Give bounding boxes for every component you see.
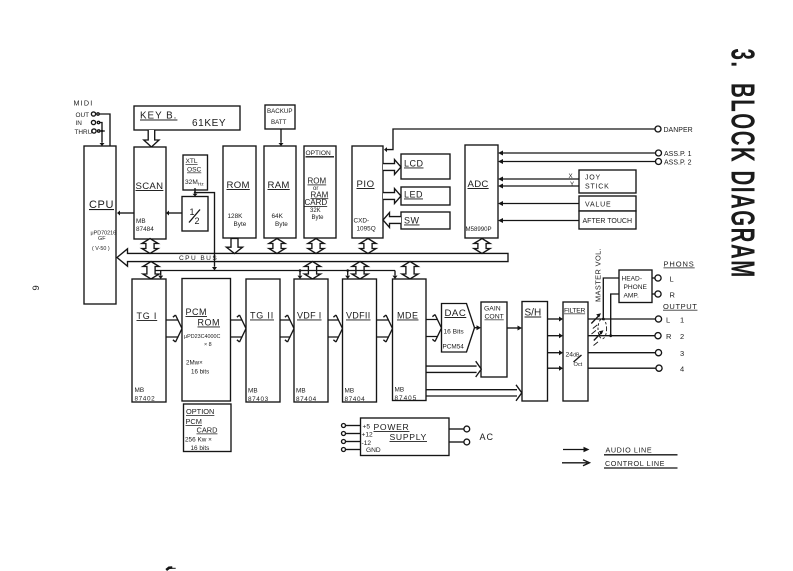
OPTION PCM CARD 256Kw x 16bits [184,404,232,452]
svg-text:AFTER TOUCH: AFTER TOUCH [583,218,633,225]
connector chevron into VDF I [285,315,294,342]
bus arrow VDF II (bidirectional) [352,262,368,280]
wire S/H to FILTER ch3 [548,350,564,355]
svg-text:CONT: CONT [485,314,504,321]
svg-text:SUPPLY: SUPPLY [390,432,427,442]
wire amp to PHONS L terminal [652,274,674,283]
MIDI THRU jack [75,129,100,136]
wires VDF I to VDF II [328,320,339,337]
svg-text:RAM: RAM [268,180,290,191]
svg-text:R: R [670,290,676,299]
svg-text:64K: 64K [272,213,284,220]
master volume pot on L line [591,313,601,334]
svg-text:PCM: PCM [186,307,208,317]
power input GND terminal [342,448,361,452]
power input +12 terminal [342,432,361,436]
svg-text:MB: MB [345,388,355,395]
legend audio line arrow [563,447,590,452]
svg-text:ADC: ADC [468,179,489,190]
TG I MB87402 [132,279,166,403]
svg-text:Byte: Byte [234,221,247,228]
wire VALUE to ADC [498,201,579,206]
svg-text:2: 2 [680,332,684,341]
CPU BUS bar with arrow into CPU [117,249,508,266]
svg-text:87403: 87403 [248,396,269,403]
svg-text:GF: GF [98,236,106,242]
ADC M58990P [465,145,498,238]
svg-text:( V-50 ): ( V-50 ) [92,246,110,252]
svg-text:PCM54: PCM54 [443,344,465,351]
svg-text:16 bits: 16 bits [191,369,209,376]
svg-text:32K: 32K [310,208,321,214]
svg-text:BACKUP: BACKUP [267,108,292,115]
wire L tap to headphone amp [602,278,619,320]
svg-text:MB: MB [296,388,306,395]
MIDI IN jack [76,120,100,127]
S/H [522,302,548,402]
svg-text:ASS.P. 2: ASS.P. 2 [664,160,692,167]
svg-text:1: 1 [680,315,684,324]
DAC 16Bits PCM54 [442,304,475,353]
svg-text:PHONS: PHONS [664,260,695,269]
svg-text:GAIN: GAIN [484,306,501,313]
svg-text:FILTER: FILTER [564,308,586,315]
hollow arrow KEY B. to SCAN [144,130,159,147]
hollow arrow PIO to LCD [383,160,401,175]
svg-text:CARD: CARD [305,198,328,207]
svg-text:OUTPUT: OUTPUT [663,302,697,311]
POWER SUPPLY unit [361,418,450,456]
wire FILTER to OUTPUT 4 [588,367,656,369]
SCAN U2 MB87484 [134,147,166,239]
svg-text:MDE: MDE [397,311,419,321]
wire R tap to headphone amp [609,294,619,337]
MIDI label [74,99,94,108]
svg-text:THRU: THRU [75,129,93,136]
LCD [401,154,450,179]
svg-text:2: 2 [195,216,200,226]
svg-text:HEAD-: HEAD- [622,276,643,283]
VDF I MB87404 [294,279,328,403]
svg-text:LED: LED [404,190,423,200]
OUTPUT R 2 terminal [655,332,684,341]
svg-text:SW: SW [404,216,420,226]
svg-text:R: R [666,332,672,341]
page number 6 (rotated) [30,285,41,290]
svg-text:STICK: STICK [585,184,610,191]
VDF II MB87404 [343,279,377,403]
svg-text:OPTION: OPTION [306,150,332,157]
power input -12 terminal [342,440,361,444]
clock drop to VDF I [298,269,303,279]
svg-text:PHONE: PHONE [624,284,648,291]
svg-text:KEY B.: KEY B. [140,111,177,122]
wires PCM ROM to TG II [231,320,243,337]
wire divider to SCAN [166,211,182,216]
power input +5 terminal [342,424,361,428]
BACKUP BATT [265,105,295,129]
bus arrow ROM (down only) [226,239,242,254]
wire BACKUP BATT to RAM [279,129,284,146]
connector chevron into DAC [432,315,441,342]
wire FILTER to OUTPUT L1 [588,318,655,320]
section title "3. BLOCK DIAGRAM" (rotated) [724,49,761,279]
clock distribution line [156,253,396,271]
wire S/H to FILTER ch4 [548,366,564,371]
svg-text:CPU: CPU [89,199,114,211]
wires VDF II to MDE [377,320,390,337]
legend control line arrow [562,460,590,466]
bus arrow VDF I (bidirectional) [304,262,320,280]
svg-text:PIO: PIO [357,179,375,190]
svg-text:OPTION: OPTION [186,407,214,416]
wire MIDI THRU joins IN line [100,130,105,132]
legend CONTROL LINE text [604,459,678,468]
svg-text:VDF I: VDF I [297,311,322,321]
svg-text:L: L [670,274,674,283]
svg-text:L: L [666,315,670,324]
MDE MB87405 [393,279,427,402]
PCM ROM uPD23C4000C x8 [182,279,231,402]
bus arrow RAM (bidirectional) [269,239,285,254]
connector chevron into TG II [237,315,246,342]
svg-text:ROM: ROM [227,180,250,191]
svg-text:TG I: TG I [137,311,158,321]
OPTION ROM or RAM CARD 32K Byte [304,146,336,238]
clock wire XTL branch down to TG clock line [195,193,217,271]
svg-text:MB: MB [248,388,258,395]
svg-text:128K: 128K [228,213,244,220]
hollow arrow SW to PIO [383,213,401,228]
LED [401,187,450,205]
wire ASS.P.1 to ADC [498,151,655,156]
svg-text:Oct: Oct [574,362,583,368]
svg-text:VDFII: VDFII [346,311,371,321]
svg-text:1095Q: 1095Q [357,226,376,233]
svg-text:Byte: Byte [312,215,325,221]
wires MDE to DAC [426,320,438,337]
svg-text:AMP.: AMP. [624,292,639,299]
connector chevron into PCM ROM [173,315,182,342]
clock drop to TG I [158,271,163,280]
svg-text:CONTROL LINE: CONTROL LINE [605,459,665,468]
svg-text:SCAN: SCAN [136,181,164,192]
VALUE [579,196,636,211]
svg-text:+12: +12 [362,432,374,439]
svg-text:CARD: CARD [197,426,218,435]
hollow arrow MDE to S/H [426,385,522,401]
svg-text:-12: -12 [362,440,372,447]
TG II MB87403 [246,279,280,403]
svg-text:DANPER: DANPER [664,127,693,134]
scan artifact mark [166,568,176,571]
GAIN CONT [481,302,507,377]
OUTPUT 4 terminal [656,365,684,374]
HEADPHONE AMP [619,270,652,303]
terminal ASS.P.2 [656,159,692,167]
svg-text:3. BLOCK DIAGRAM: 3. BLOCK DIAGRAM [724,49,761,279]
terminal ASS.P.1 [656,150,692,158]
RAM 64K Byte [264,146,296,238]
svg-text:256 Kw ×: 256 Kw × [185,437,212,444]
svg-text:87404: 87404 [345,396,366,403]
FILTER 24dB/Oct [563,302,588,401]
svg-text:CPU BUS: CPU BUS [179,255,218,262]
dashed gang link around pots [598,319,607,339]
wire S/H to FILTER ch2 [548,333,564,338]
ROM 128K Byte [223,146,256,238]
svg-text:ROM: ROM [308,177,327,186]
svg-text:M58990P: M58990P [466,226,492,233]
legend AUDIO LINE text [604,446,678,455]
svg-text:16 bits: 16 bits [191,445,210,452]
svg-text:IN: IN [76,120,83,127]
wire DANPER to PIO [384,129,655,152]
svg-text:AC: AC [480,432,495,442]
divider 1/2 U3 [182,197,208,232]
bus arrow ADC (bidirectional) [474,239,490,254]
OUTPUT 3 terminal [655,349,684,358]
bus arrow TG I (bidirectional) [143,262,159,280]
keyboard KEY B. 61KEY [134,106,240,130]
wires TG II to VDF I [280,320,291,337]
DANPER terminal [655,126,693,134]
svg-text:87405: 87405 [395,395,418,402]
svg-text:BATT: BATT [271,119,287,126]
wire XTL OSC to divider [193,188,198,197]
AFTER TOUCH [579,211,636,229]
svg-text:MB: MB [135,387,145,394]
OUTPUT L 1 terminal [655,315,684,324]
SW [401,212,450,229]
master volume pot on R line [594,330,604,345]
wire GAIN CONT to S/H [507,326,522,331]
wire S/H to FILTER ch1 [548,317,564,322]
svg-text:MASTER VOL.: MASTER VOL. [594,248,603,302]
svg-text:OUT: OUT [76,112,90,119]
svg-text:87402: 87402 [135,396,156,403]
svg-text:3: 3 [680,349,684,358]
PHONS label [664,260,695,269]
svg-text:TG II: TG II [250,311,274,321]
svg-text:ROM: ROM [198,318,221,328]
svg-text:GND: GND [366,447,381,454]
bus arrow PIO (bidirectional) [360,239,376,254]
svg-text:4: 4 [680,365,684,374]
svg-text:ASS.P. 1: ASS.P. 1 [664,151,692,158]
svg-text:DAC: DAC [445,308,467,319]
svg-text:MB: MB [136,218,146,225]
svg-text:87404: 87404 [296,396,317,403]
svg-text:Byte: Byte [275,221,288,228]
node Y joystick wire to ADC [498,181,579,189]
svg-text:AUDIO LINE: AUDIO LINE [606,446,653,455]
svg-text:× 8: × 8 [204,342,212,348]
wire DAC to GAIN CONT [475,325,482,330]
hollow arrow PIO to LED [383,189,401,204]
OUTPUT label [663,302,697,311]
svg-text:6: 6 [30,285,41,290]
bus arrow SCAN (bidirectional) [142,239,158,254]
crystal oscillator XTL OSC 32MHz [183,155,208,190]
wires TG I to PCM ROM [166,320,179,337]
JOY STICK [579,170,636,193]
svg-text:87484: 87484 [136,226,154,233]
svg-text:μPD23C4000C: μPD23C4000C [184,334,220,340]
svg-text:OSC: OSC [187,167,202,174]
svg-text:61KEY: 61KEY [192,118,226,129]
bus arrow MDE (bidirectional) [402,262,418,280]
wire power supply to AC line 1 [449,426,470,432]
hollow arrow MDE to GAIN CONT [426,361,481,377]
svg-text:MB: MB [395,387,405,394]
wire FILTER to OUTPUT R2 [588,335,655,337]
wire MIDI OUT to CPU [99,114,110,146]
svg-text:CXD-: CXD- [354,218,370,225]
svg-text:POWER: POWER [374,422,410,432]
svg-text:XTL: XTL [186,158,198,165]
connector chevron into VDF II [333,315,342,342]
wire amp to PHONS R terminal [652,290,676,299]
MASTER VOL. label (rotated) [594,248,603,302]
wire FILTER to OUTPUT 3 [588,352,655,354]
svg-text:2Mw×: 2Mw× [186,360,203,367]
svg-text:JOY: JOY [585,175,601,182]
CPU U1 [84,146,116,304]
wire MIDI IN to CPU [100,123,105,147]
svg-text:VALUE: VALUE [585,202,611,209]
clock drop to MDE [393,271,398,280]
clock drop to VDF II [345,269,350,279]
PIO CXD-1095Q [352,146,383,238]
svg-text:S/H: S/H [525,308,542,319]
wire ASS.P.2 to ADC [498,159,655,164]
connector chevron into MDE [383,315,392,342]
svg-text:Y: Y [570,181,574,188]
svg-text:MIDI: MIDI [74,99,94,108]
svg-text:16 Bits: 16 Bits [444,329,465,336]
MIDI OUT jack [76,112,100,119]
bus arrow OPTION card (bidirectional) [308,239,324,254]
svg-text:LCD: LCD [404,159,424,169]
wire AFTER TOUCH to ADC [498,218,579,223]
AC label [480,432,495,442]
wire power supply to AC line 2 [449,439,470,445]
node X joystick wire to ADC [498,173,579,182]
wire SCAN to CPU [117,211,134,216]
svg-text:+5: +5 [363,423,371,430]
